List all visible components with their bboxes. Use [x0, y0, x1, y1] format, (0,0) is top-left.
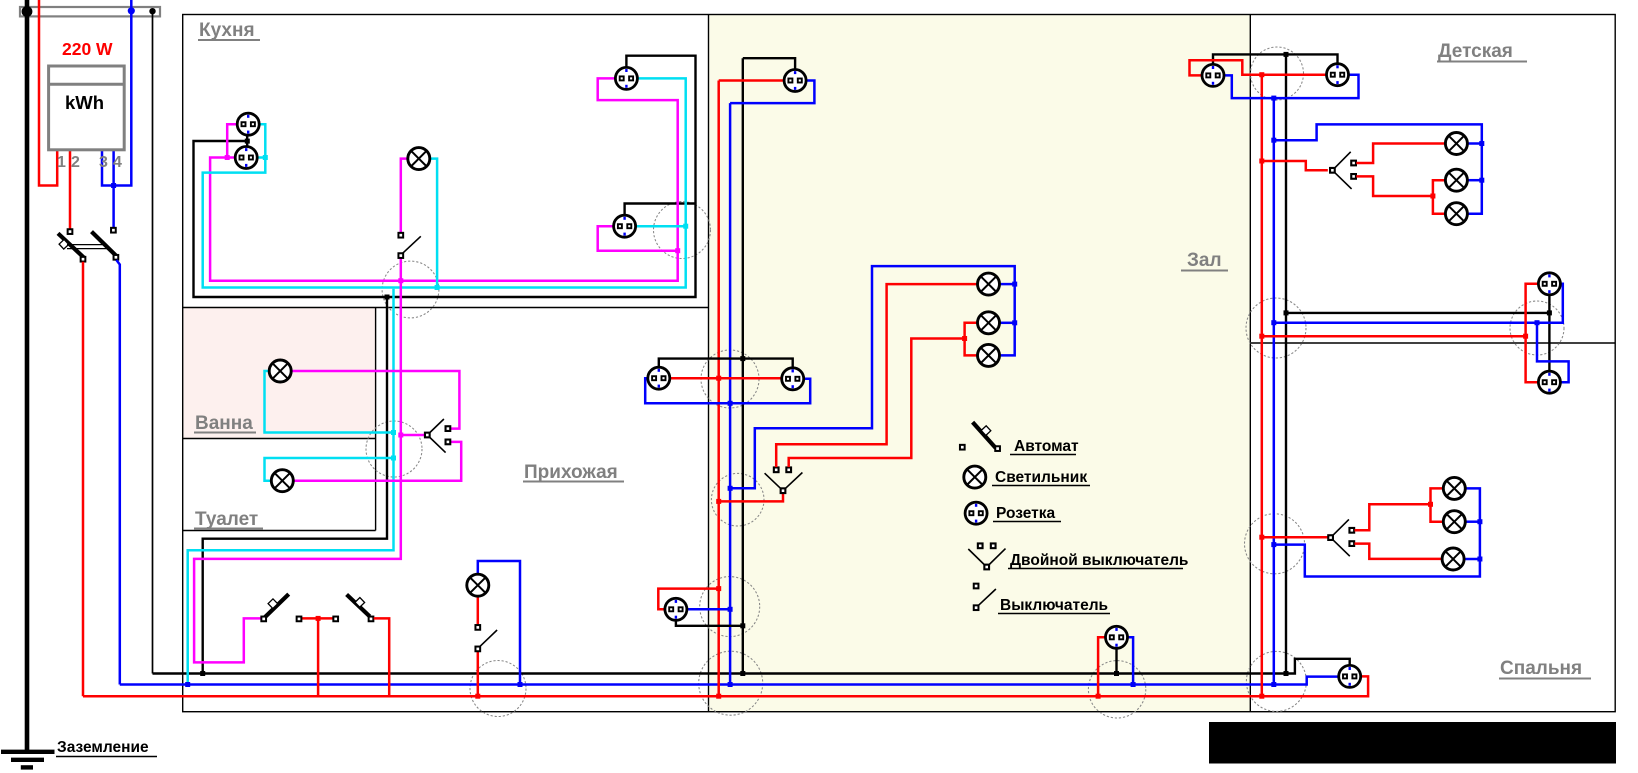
wire: bath lamp phase (magenta) [291, 371, 459, 429]
junction: red riser on phase bus [1259, 694, 1264, 699]
svg-text:Прихожая: Прихожая [524, 462, 618, 483]
junction: cyan lamp drop on bus [435, 285, 440, 290]
socket XS4 (kitchen lower-right) [614, 215, 636, 237]
wire: Зал top socket neutral (blue) [730, 81, 814, 104]
junction: PE bridge on black riser [740, 356, 745, 361]
junction: neutral branch on blue riser [1271, 320, 1276, 325]
wire: meter terminal 2 to breaker QF1 (red) [69, 150, 72, 229]
wire: PEN main (thick black) [25, 0, 30, 752]
lamp EL6 (Зал middle) [978, 312, 1000, 334]
breaker QF3 (lighting circuit, hallway) [261, 594, 288, 621]
wire: neutral bus bottom (blue) [120, 677, 1339, 685]
wire: riser lighting phase to hall breaker (magenta) [194, 281, 401, 663]
svg-text:Зал: Зал [1187, 250, 1222, 271]
wire: upper-right socket phase (red) [1526, 284, 1539, 336]
junction: lamp2 neutral [1012, 320, 1017, 325]
svg-text:Розетка: Розетка [996, 505, 1055, 522]
svg-text:Двойной выключатель: Двойной выключатель [1010, 552, 1188, 569]
ground electrode symbol [1, 752, 55, 768]
wire: kitchen switch to phase bus (magenta) [400, 258, 403, 281]
wire: riser neutral kitchen to bottom bus (cyan) [188, 289, 394, 685]
wire: lamp2 phase stub (red) [1433, 180, 1446, 196]
label: Зал [1181, 250, 1228, 271]
legend: Автомат label [1010, 438, 1079, 455]
socket XS3 (kitchen upper-right) [615, 67, 637, 89]
junction: PE branch joins link [1547, 310, 1552, 315]
junction: phase bridge on red riser [716, 376, 721, 381]
junction: black riser on PE bus [1284, 671, 1289, 676]
node: PE tap on bus [149, 8, 155, 14]
breaker tie bar [67, 245, 107, 249]
wire: Спальня switch common feed (red) [1262, 536, 1328, 539]
censored watermark bar [1209, 722, 1616, 764]
lamp EL10 (Детская bottom) [1445, 203, 1467, 225]
node: feed pair contact right [333, 617, 338, 622]
wire: right wall sockets phase branch (red) [1262, 335, 1526, 338]
switch SA1 (kitchen) [398, 233, 420, 258]
lamp EL7 (Зал bottom) [978, 344, 1000, 366]
junction highlight circle: Спальня switch tap [1245, 514, 1305, 574]
junction: phase branch on red riser [1259, 334, 1264, 339]
junction: black riser on kitchen PE loop [385, 295, 390, 300]
lamp EL9 (Детская middle) [1445, 169, 1467, 191]
junction: toilet lamp neutral on riser [391, 456, 396, 461]
label: Кухня [198, 20, 260, 41]
socket XS12 (Детская bottom-right) [1538, 273, 1560, 295]
node: blue supply tap on bus [128, 7, 135, 14]
wire: kitchen phase bus (magenta) [210, 78, 678, 280]
junction: blue riser on neutral bus [728, 682, 733, 687]
junction: bottom socket PE on bus [1114, 671, 1119, 676]
wire: socket pair PE bridge (black) [659, 359, 793, 368]
wire: toilet lamp neutral (cyan) [265, 458, 394, 481]
wire: Спальня lamp2 neutral stub (blue) [1465, 520, 1480, 523]
breaker QF4 (socket circuit, hallway) [347, 595, 374, 622]
lamp EL4 (hallway) [467, 574, 489, 596]
wire: QF1 output phase down (red) [82, 262, 85, 696]
wire: socket pair phase bridge (red) [670, 377, 782, 380]
socket XS2 (kitchen lower-left) [235, 147, 257, 169]
socket XS1 (kitchen upper-left) [237, 113, 259, 135]
wire: lamp1 phase stub (red) [1431, 488, 1444, 504]
label: Ванна [194, 413, 256, 434]
junction: PE branch on black riser [1284, 310, 1289, 315]
wire: Зал lamps neutral (blue) [730, 266, 1015, 488]
wire: Спальня lamps1-2 switched phase (red) [1355, 504, 1431, 530]
wire: Спальня lamp3 switched phase (red) [1355, 544, 1443, 559]
room background: Ванна (pink) [183, 308, 375, 438]
wire: bath double-switch common feed (magenta) [401, 434, 425, 437]
junction: kitchen socket PE link [245, 139, 250, 144]
wire: Зал bottom socket PE (black) [1115, 648, 1117, 673]
junction: black riser on PE bus [740, 671, 745, 676]
junction highlight circle: Зал riser bus join [699, 651, 763, 715]
junction highlight circle: kitchen bottom [382, 261, 439, 318]
wire: Детская top sockets neutral bridge (blue) [1224, 75, 1359, 98]
wire: lamp2 phase stub (red) [965, 323, 978, 339]
junction: feed tap [316, 616, 321, 621]
junction: lamps neutral on blue riser [1271, 138, 1276, 143]
svg-text:Выключатель: Выключатель [1000, 597, 1108, 614]
legend: Розетка label [993, 505, 1061, 522]
junction: lower socket PE on riser [740, 623, 745, 628]
wire: bath lamp neutral (cyan) [265, 371, 394, 433]
wire: phase bus bottom (red) [83, 676, 1368, 696]
wall: bath/toilet divider [183, 438, 376, 440]
socket XS13 (Спальня top-right) [1538, 371, 1560, 393]
junction: lamps neutral on blue riser [1271, 542, 1276, 547]
svg-text:Светильник: Светильник [995, 469, 1087, 486]
lamp EL1 (kitchen) [408, 148, 430, 170]
junction: bath lamp neutral on riser [391, 430, 396, 435]
wire: lamp2 phase stub (red) [1431, 504, 1444, 521]
node: PEN tap on bus [22, 6, 33, 17]
junction: magenta at right lower branch [675, 248, 680, 253]
wire: riser PE kitchen to bottom bus (black) [203, 297, 387, 674]
socket XS7 (Зал wall) [782, 368, 804, 390]
junction: lamp2 neutral [1477, 519, 1482, 524]
svg-text:Туалет: Туалет [195, 509, 258, 530]
junction: magenta switch on bus [398, 278, 403, 283]
wire: Детская riser neutral (blue) [1273, 98, 1276, 684]
svg-text:Заземление: Заземление [57, 739, 149, 756]
junction highlight circle: hallway lamp bus join [470, 661, 526, 717]
lamp EL11 (Спальня top) [1443, 477, 1465, 499]
junction: switch feed on red riser [1259, 535, 1264, 540]
double switch SA5 (Детская) [1330, 152, 1356, 189]
svg-text:220 W: 220 W [62, 39, 113, 59]
junction: cyan riser on neutral bus [185, 682, 190, 687]
junction: phase split [1523, 334, 1528, 339]
junction: lower socket phase on riser [716, 586, 721, 591]
svg-text:Ванна: Ванна [195, 413, 253, 434]
junction: switch feed on red riser [716, 499, 721, 504]
junction: bottom socket neutral on bus [1131, 682, 1136, 687]
svg-text:1: 1 [57, 154, 66, 171]
junction: PE bridge on black riser [1284, 52, 1289, 57]
wall: Детская/Спальня divider [1250, 342, 1615, 344]
wire: PE bus bottom (black) [153, 659, 1350, 674]
wire: kitchen PE loop (black) [194, 56, 696, 297]
wire: Детская lamps neutral (blue) [1274, 124, 1482, 213]
wire: phase supply to meter terminal 1 (red) [39, 0, 57, 186]
switch SA3 (hallway) [475, 625, 497, 651]
legend: Автомат symbol [960, 422, 1000, 451]
legend: Двойной выключатель symbol [968, 543, 1005, 569]
junction: Зал lamps neutral on riser [728, 486, 733, 491]
socket XS8 (hallway lower) [665, 598, 687, 620]
meter kWh box [49, 66, 125, 150]
junction: lamp2 neutral [1479, 178, 1484, 183]
socket XS9 (Зал bottom) [1106, 626, 1128, 648]
label: Заземление [56, 739, 157, 757]
svg-text:4: 4 [113, 154, 122, 171]
svg-text:Спальня: Спальня [1500, 658, 1582, 679]
wire: socket pair neutral bridge (blue) [645, 378, 810, 403]
wire: Детская lamps2-3 switched phase (red) [1356, 176, 1433, 196]
wire: kitchen right lower socket phase branch (magenta) [598, 226, 678, 251]
wire: kitchen phase net (magenta) [227, 124, 238, 157]
wall: apartment outline [183, 15, 1616, 712]
wire: Зал riser PE (black) [742, 58, 744, 673]
wire: PE down column [152, 11, 154, 674]
lamp EL8 (Детская top) [1445, 133, 1467, 155]
junction highlight circle: Зал switch tap [711, 473, 764, 526]
wire: Детская riser phase (red) [1261, 75, 1264, 697]
wire: hallway lamp neutral (blue) [478, 561, 520, 685]
socket XS5 (Зал top) [784, 70, 806, 92]
legend: Розетка symbol [965, 502, 987, 524]
svg-text:Кухня: Кухня [199, 20, 255, 41]
wire: Детская lamp2 neutral stub (blue) [1467, 179, 1482, 182]
svg-text:2: 2 [71, 154, 80, 171]
junction: blue riser on neutral bus [1271, 682, 1276, 687]
junction: neutral split to lower socket [1535, 320, 1540, 325]
junction: lamp3 neutral [1477, 557, 1482, 562]
wall: Зал/Детская divider [1249, 15, 1251, 712]
socket XS10 (Детская left) [1202, 64, 1224, 86]
junction: switch common on magenta riser [398, 433, 403, 438]
legend: Выключатель label [998, 597, 1110, 614]
junction: neutral bridge on blue riser [728, 401, 733, 406]
junction: lamps2-3 phase split [1430, 194, 1435, 199]
lamp EL5 (Зал top) [978, 273, 1000, 295]
room background: Зал (cream) [709, 15, 1249, 711]
wire: kitchen PE link between sockets (black) [246, 136, 248, 147]
wire: Зал switch common feed (red) [719, 494, 783, 502]
wall: hallway/Зал divider [708, 15, 710, 712]
wire: Детская top sockets phase bridge (red) [1190, 60, 1327, 75]
svg-text:Детская: Детская [1438, 41, 1513, 62]
wire: Спальня lamp3 neutral stub (blue) [1464, 558, 1480, 561]
wire: right wall sockets PE link (black) [1548, 295, 1550, 371]
wire: lamp3 phase stub (red) [965, 339, 978, 356]
junction: lower socket neutral on riser [728, 607, 733, 612]
wire: left lower socket neutral stub (cyan) [257, 156, 265, 159]
wall: kitchen bottom [183, 307, 709, 309]
wire: right wall sockets PE branch (black) [1286, 312, 1549, 314]
double switch SA6 (Спальня) [1328, 519, 1354, 556]
socket XS14 (Спальня bottom-left) [1339, 665, 1361, 687]
junction highlight circle: bath switch [366, 421, 422, 477]
wire: Зал lamp1 neutral stub (blue) [1000, 283, 1015, 286]
label: Туалет [194, 509, 263, 530]
legend: Двойной выключатель label [1008, 552, 1188, 569]
wire: Детская lamp1 neutral stub (blue) [1467, 142, 1482, 145]
lamp EL12 (Спальня middle) [1443, 511, 1465, 533]
wire: QF2 output neutral down (blue) [116, 260, 119, 685]
label: Детская [1437, 41, 1527, 62]
wire: Детская top sockets PE bridge (black) [1213, 54, 1338, 64]
wire: kitchen neutral net (cyan) [203, 78, 686, 287]
wire: hallway lower socket PE (black) [676, 620, 743, 625]
wire: Детская riser PE (black) [1285, 54, 1287, 673]
junction: lamps2-3 phase split [962, 336, 967, 341]
wire: Зал lamp1 switched phase (red) [776, 284, 977, 467]
wire: Зал riser phase (red) [717, 81, 720, 697]
junction: hallway lamp neutral on bus [518, 682, 523, 687]
wire: neutral supply to meter terminal 3 (blue) [102, 0, 131, 186]
junction: switch feed on red riser [1259, 159, 1264, 164]
socket XS11 (Детская right) [1327, 64, 1349, 86]
wire: Зал top socket PE (black) [743, 58, 795, 69]
wire: lower-right socket neutral (blue) [1537, 323, 1569, 383]
junction: phase bridge on red riser [1259, 72, 1264, 77]
lamp EL2 (bath) [269, 360, 291, 382]
wire: lower-right socket phase (red) [1526, 336, 1539, 382]
junction: cyan at left sockets [263, 155, 268, 160]
wire: Детская lamp1 switched phase (red) [1356, 144, 1445, 164]
wire: Зал lamp2 neutral stub (blue) [1000, 322, 1015, 325]
svg-text:Автомат: Автомат [1014, 438, 1079, 455]
label: Прихожая [523, 462, 624, 483]
wire: lamp3 phase stub (red) [1433, 196, 1446, 214]
wire: Зал bottom socket neutral (blue) [1128, 637, 1134, 684]
wire: QF4 to phase bus (red) [374, 618, 390, 696]
junction: magenta at left sockets [225, 155, 230, 160]
wire: right wall sockets neutral branch (blue) [1274, 284, 1563, 323]
junction highlight circle: right riser bus join [1246, 651, 1306, 711]
supply bus bar (grey) [20, 7, 160, 16]
junction: terminal-4 wire crosses neutral link [111, 183, 116, 188]
node: feed pair contact left [297, 617, 302, 622]
wire: toilet lamp phase (magenta) [293, 442, 461, 481]
wire: hallway lower socket neutral (blue) [687, 608, 730, 611]
junction highlight circle: Детская top sockets [1251, 47, 1304, 100]
junction highlight circle: hallway socket pair [701, 350, 759, 408]
breaker QF2 (neutral pole) [92, 228, 119, 260]
wire: Спальня lamps neutral (blue) [1274, 488, 1480, 576]
socket XS6 (hallway wall) [648, 367, 670, 389]
legend: Светильник symbol [964, 466, 986, 488]
junction: black riser on PE bus [200, 671, 205, 676]
wire: Зал riser neutral (blue) [729, 103, 732, 684]
double switch SA2 (bath/toilet) [425, 419, 450, 453]
junction: hallway lamp phase on bus [475, 694, 480, 699]
lamp EL3 (toilet) [271, 470, 293, 492]
wire: kitchen lamp neutral drop (cyan) [430, 159, 437, 288]
wire: kitchen right lower socket PE stub (black) [625, 204, 696, 216]
junction highlight circle: Детская riser mid [1246, 298, 1306, 358]
wire: meter terminal 4 to breaker QF2 (blue) [112, 150, 115, 227]
label: Спальня [1499, 658, 1591, 679]
junction highlight circle: hallway lower socket [700, 577, 760, 637]
junction: neutral bridge on blue riser [1271, 96, 1276, 101]
junction: lamp1 neutral [1012, 282, 1017, 287]
double switch SA4 (Зал) [765, 467, 803, 493]
svg-text:3: 3 [99, 154, 108, 171]
wire: Зал lamps2-3 switched phase (red) [789, 339, 965, 468]
legend: Светильник label [992, 469, 1090, 486]
breaker QF1 (phase pole) [58, 229, 85, 261]
junction: lamps1-2 phase split [1428, 502, 1433, 507]
legend: Выключатель symbol [974, 584, 996, 610]
junction highlight circle: Спальня right sockets [1510, 301, 1564, 355]
junction: lamp1 neutral [1479, 141, 1484, 146]
junction: red riser on phase bus [716, 694, 721, 699]
svg-text:kWh: kWh [65, 92, 104, 113]
wire: hall breaker feed pair (red) [302, 617, 334, 620]
wire: Детская switch common feed (red) [1262, 161, 1328, 170]
wire: feed tap to phase bus (red) [317, 618, 320, 696]
wall: bath/toilet right [375, 308, 377, 531]
wire: Зал top socket phase stub (red) [719, 79, 785, 82]
wire: right lower socket neutral stub (cyan) [636, 225, 686, 228]
lamp EL13 (Спальня bottom) [1442, 548, 1464, 570]
wire: Зал bottom socket phase (red) [1098, 637, 1105, 696]
junction highlight circle: kitchen right sockets [654, 202, 711, 259]
wire: kitchen lamp phase via switch (magenta) [401, 159, 408, 233]
junction: bottom socket phase on bus [1096, 694, 1101, 699]
wire: hallway lower socket phase (red) [658, 589, 718, 610]
wall: toilet bottom [183, 530, 376, 532]
wire: hallway lamp phase lower to bus (red) [477, 652, 480, 697]
wire: hallway lamp phase upper (red) [477, 596, 480, 624]
junction: cyan at right lower socket [683, 224, 688, 229]
junction highlight circle: Зал bottom socket [1088, 661, 1145, 718]
